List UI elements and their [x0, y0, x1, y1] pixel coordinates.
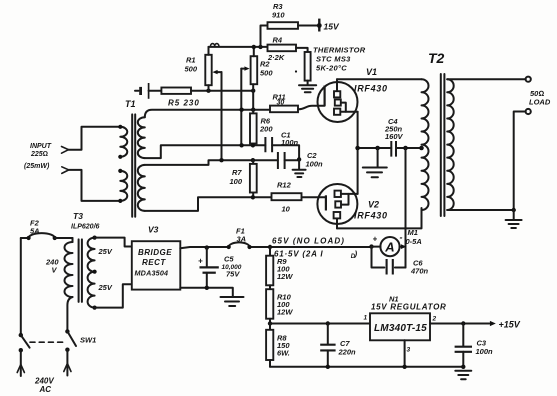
- mains left pole wire: [20, 238, 22, 335]
- svg-text:6W.: 6W.: [277, 349, 290, 358]
- wire T3 sec top to bridge: [95, 238, 132, 247]
- wire load return: [514, 112, 526, 211]
- wire T1 sec2 top to line4: [145, 160, 278, 165]
- svg-text:5A: 5A: [30, 227, 40, 236]
- svg-text:RECT: RECT: [142, 258, 166, 267]
- wire T1 sec1 bottom to line3: [145, 145, 265, 158]
- svg-text:V2: V2: [368, 200, 379, 210]
- svg-text:+: +: [373, 235, 378, 244]
- node line4 a: [219, 158, 223, 162]
- svg-text:IRF430: IRF430: [354, 211, 388, 221]
- svg-text:AC: AC: [39, 385, 52, 394]
- svg-text:65V (NO LOAD): 65V (NO LOAD): [272, 237, 345, 246]
- wire T2 sec top to load: [447, 78, 525, 80]
- svg-text:470n: 470n: [410, 267, 429, 276]
- node line5: [251, 195, 255, 199]
- svg-text:10: 10: [282, 205, 291, 214]
- node R2 top: [252, 45, 256, 49]
- regulator output wire: [430, 323, 490, 325]
- squiggle mark: [211, 44, 219, 47]
- node mid rail left: [268, 321, 272, 325]
- wire T3 sec bottom to bridge: [95, 284, 132, 307]
- thermistor TH1: [305, 46, 366, 81]
- node regulator pin3: [402, 365, 406, 369]
- svg-text:T2: T2: [428, 50, 445, 66]
- capacitor C6: [372, 247, 429, 276]
- ground (bridge): [221, 297, 244, 306]
- rail voltage labels: [272, 237, 358, 261]
- capacitor C3: [455, 324, 493, 367]
- node R1 bottom: [206, 89, 210, 93]
- svg-text:225Ω: 225Ω: [30, 151, 48, 158]
- resistor R11: [270, 93, 298, 113]
- wire V1 V2 source vertical: [357, 112, 359, 194]
- svg-text:V1: V1: [366, 67, 377, 77]
- svg-text:R5 230: R5 230: [168, 99, 200, 108]
- svg-text:M1: M1: [408, 228, 418, 237]
- svg-text:INPUT: INPUT: [30, 143, 52, 150]
- output arrow: [490, 321, 496, 326]
- node line4 b: [251, 158, 255, 162]
- node C5 bottom: [205, 286, 209, 290]
- node C7 top: [326, 321, 330, 325]
- node C3 bottom: [461, 365, 465, 369]
- battery bias cell: [135, 83, 161, 99]
- transformer T2: [422, 50, 454, 216]
- svg-text:75V: 75V: [226, 270, 240, 279]
- svg-text:2·2K: 2·2K: [267, 53, 285, 62]
- pot R1: [185, 47, 222, 91]
- resistor R4: [267, 36, 308, 63]
- resistor R5: [161, 88, 199, 108]
- svg-text:0-5A: 0-5A: [406, 237, 422, 246]
- wire R2 bottom down to R11 line: [252, 91, 254, 110]
- mosfet V1: [298, 67, 388, 122]
- ground (T2 secondary): [506, 210, 522, 228]
- svg-text:R4: R4: [273, 36, 283, 45]
- node rail ground: [375, 146, 380, 151]
- node C5 top: [205, 245, 209, 249]
- bridge rectifier V3: [132, 225, 181, 290]
- wire R5 to R2 bottom: [191, 90, 254, 92]
- svg-text:3: 3: [407, 347, 411, 354]
- svg-text:12W: 12W: [277, 308, 293, 317]
- wire R1 wiper down to line4: [221, 72, 223, 160]
- capacitor C4: [384, 117, 404, 157]
- fuse F2: [21, 219, 73, 241]
- psu rail: [180, 247, 371, 248]
- input arrow top: [62, 147, 69, 154]
- node rail M1 drop: [403, 146, 408, 151]
- svg-text:-: -: [400, 233, 403, 243]
- node T2 centre tap: [419, 146, 424, 151]
- resistor R3: [261, 2, 318, 47]
- svg-text:T3: T3: [73, 211, 83, 221]
- node M1 left: [369, 244, 373, 248]
- svg-text:100n: 100n: [306, 160, 324, 169]
- svg-text:100n: 100n: [281, 138, 299, 147]
- resistor R6: [250, 110, 273, 146]
- node C7 bottom: [326, 365, 330, 369]
- top bias wire: [209, 46, 268, 48]
- svg-text:LOAD: LOAD: [529, 98, 551, 107]
- svg-text:500: 500: [260, 69, 273, 78]
- input labels: [24, 143, 52, 170]
- svg-text:160V: 160V: [385, 132, 404, 141]
- svg-text:15V: 15V: [324, 22, 340, 32]
- transformer T3: [45, 211, 113, 331]
- svg-text:R1: R1: [186, 56, 196, 65]
- svg-text:BRIDGE: BRIDGE: [138, 248, 172, 257]
- speck: [295, 70, 297, 72]
- svg-text:(25mW): (25mW): [24, 163, 50, 170]
- node line3 b: [251, 143, 255, 147]
- ground (thermistor): [299, 81, 316, 93]
- svg-text:STC MS3: STC MS3: [316, 55, 351, 64]
- node T2 sec ground: [512, 208, 516, 212]
- ground (C1 C2): [293, 159, 306, 177]
- load labels: [529, 89, 551, 107]
- svg-text:SW1: SW1: [80, 336, 96, 345]
- svg-text:25V: 25V: [98, 283, 113, 292]
- meter M1: [372, 228, 422, 256]
- ground (rail): [363, 148, 387, 177]
- wire T2 sec bottom: [447, 209, 514, 211]
- node line3 a: [239, 143, 243, 147]
- svg-text:+: +: [198, 257, 203, 266]
- mosfet V2: [302, 184, 388, 228]
- load terminal 2: [526, 109, 531, 114]
- wire rail to M1: [405, 148, 407, 268]
- resistor R12: [272, 181, 302, 214]
- svg-text:C5: C5: [224, 255, 234, 264]
- svg-text:R7: R7: [232, 168, 242, 177]
- resistor R7: [230, 160, 257, 197]
- svg-text:30: 30: [277, 99, 285, 106]
- load terminal 1: [526, 77, 531, 82]
- capacitor C2: [278, 151, 323, 169]
- switch SW1: [19, 329, 97, 352]
- svg-text:12W: 12W: [277, 272, 293, 281]
- resistor R10: [266, 285, 293, 323]
- node line2 a: [239, 108, 243, 112]
- bottom rail: [270, 366, 463, 368]
- svg-text:15V REGULATOR: 15V REGULATOR: [371, 303, 446, 312]
- svg-text:THERMISTOR: THERMISTOR: [313, 46, 366, 55]
- svg-text:T1: T1: [125, 99, 136, 109]
- svg-text:R12: R12: [277, 181, 292, 190]
- svg-text:1: 1: [364, 315, 368, 322]
- transformer T1: [118, 99, 145, 217]
- svg-text:100: 100: [230, 177, 243, 186]
- svg-text:200: 200: [259, 125, 273, 134]
- resistor R8: [266, 324, 290, 367]
- ground (output): [455, 371, 471, 379]
- node C1 C2 junction: [297, 157, 301, 161]
- svg-text:): ): [354, 250, 358, 259]
- wire R2 wiper down to line3: [240, 69, 242, 146]
- svg-text:910: 910: [272, 11, 285, 20]
- node R9 top: [268, 245, 272, 249]
- svg-text:ILP620/6: ILP620/6: [71, 224, 100, 231]
- svg-text:A: A: [384, 240, 394, 255]
- capacitor C7: [320, 324, 356, 367]
- regulator N1: [364, 295, 447, 367]
- svg-text:V3: V3: [148, 225, 159, 235]
- svg-text:3A: 3A: [237, 235, 247, 244]
- mains lead right: [64, 350, 71, 376]
- input arrow bottom: [62, 167, 69, 174]
- capacitor C1: [265, 131, 299, 160]
- wire input bottom to T1 primary bottom: [69, 170, 121, 201]
- bridge negative wire: [180, 288, 233, 297]
- node R2 bottom: [251, 89, 255, 93]
- +15V terminal: [317, 19, 340, 32]
- svg-text:5K-20°C: 5K-20°C: [316, 64, 347, 73]
- svg-text:500: 500: [185, 65, 198, 74]
- svg-text:MDA3504: MDA3504: [135, 269, 169, 278]
- 240V AC label: [34, 377, 54, 395]
- svg-text:100n: 100n: [476, 347, 494, 356]
- capacitor C5: [198, 248, 242, 288]
- wire V1 drain to T2 top: [337, 78, 422, 80]
- svg-text:LM340T-15: LM340T-15: [374, 323, 427, 334]
- node R3 lead: [258, 45, 262, 49]
- mid rail: [270, 323, 370, 325]
- svg-text:25V: 25V: [98, 247, 113, 256]
- svg-text:+15V: +15V: [499, 320, 521, 330]
- wire T1 sec1 top to R11 line: [145, 110, 270, 118]
- wire input top to T1 primary top: [69, 127, 121, 150]
- ground rail: [358, 147, 422, 149]
- svg-text:220n: 220n: [338, 348, 357, 357]
- svg-text:2: 2: [432, 316, 437, 323]
- wire T1 sec2 bottom to line5: [145, 197, 272, 211]
- resistor R9: [266, 247, 293, 285]
- node rail source: [355, 146, 360, 151]
- wire V2 drain to T2 bottom: [337, 208, 422, 228]
- node C3 top: [461, 321, 465, 325]
- pot R2: [241, 47, 273, 91]
- fuse F1: [227, 227, 252, 250]
- svg-text:IRF430: IRF430: [354, 84, 388, 94]
- mains lead left: [17, 350, 24, 376]
- node line2 b: [251, 108, 255, 112]
